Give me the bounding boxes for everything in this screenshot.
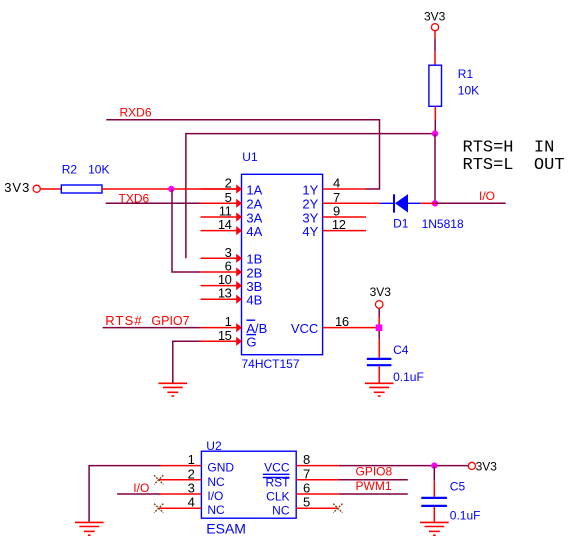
svg-text:3V3: 3V3 [424,10,446,24]
svg-text:CLK: CLK [266,490,289,504]
svg-text:16: 16 [335,314,349,329]
svg-text:2: 2 [188,466,195,481]
svg-text:NC: NC [207,475,225,489]
svg-text:5: 5 [303,495,310,510]
svg-text:R1: R1 [458,67,474,81]
pin 1 stub (GND) [161,465,202,467]
svg-text:1N5818: 1N5818 [422,217,464,231]
svg-text:4B: 4B [246,293,262,308]
svg-text:3V3: 3V3 [370,285,392,299]
pin label A/B with overline on A [246,320,267,336]
ground (C5) [420,522,449,535]
pin 7 stub (RST) [296,479,339,481]
svg-text:7: 7 [303,466,310,481]
svg-text:8: 8 [303,452,310,467]
node R1 bottom junction [432,130,438,136]
pin 2 stub (NC) [159,479,202,481]
svg-text:4: 4 [188,495,195,510]
pin 12 stub (4Y) [323,230,366,232]
svg-text:15: 15 [218,328,232,343]
wire RXD6 to pin 4 [106,120,379,189]
node TXD6 junction [168,186,174,192]
node I/O junction [432,200,438,206]
svg-text:4: 4 [333,176,340,191]
power 3V3 circle (U2) [468,462,475,469]
pin 5 stub (NC) [296,507,338,509]
svg-text:GPIO7: GPIO7 [151,314,189,328]
wire GPIO8 (pin 7) [339,479,408,481]
wire C5 to ground [433,507,435,522]
power 3V3 circle (top right) [431,24,438,31]
wire pin 1 to ground [89,466,160,522]
pin 2 stub (1A) [201,184,243,193]
wire 1B pullup net (horizontal to R1 node) [186,134,435,259]
node VCC junction [376,324,383,331]
svg-text:PWM1: PWM1 [356,479,392,493]
svg-text:C4: C4 [393,343,409,357]
ground (U2 GND) [75,522,104,535]
pin 5 stub (2A) [201,199,243,208]
no-connect X pin 5 [333,504,342,513]
wire 3V3 to VCC node [378,309,380,328]
IC U2 body [201,451,296,518]
wire pin 15 to ground [173,341,201,383]
wire C5 junction down to C5 [433,466,435,497]
pin 4 stub (NC) [159,507,202,509]
svg-text:NC: NC [272,504,290,518]
wire R1 node down to I/O node [434,134,436,204]
svg-text:10K: 10K [88,163,109,177]
svg-text:1A: 1A [246,182,262,197]
svg-text:13: 13 [218,286,232,301]
capacitor C5 [421,498,447,506]
svg-text:3V3: 3V3 [476,459,498,473]
wire from 3V3 to R1 [434,31,436,65]
power 3V3 circle (left) [33,185,40,192]
svg-text:10K: 10K [458,84,479,98]
wire C4 to ground [378,366,380,383]
pin label G with overline [246,335,256,350]
wire 3V3 to R2 [41,188,62,190]
pin label RST with overline [263,475,290,489]
ground (U1 G pin) [159,383,188,396]
svg-text:ESAM: ESAM [206,520,246,536]
no-connect X pin 2 [154,475,163,484]
svg-text:74HCT157: 74HCT157 [242,357,300,371]
capacitor C4 [367,359,392,365]
wire PWM1 (pin 6) [339,493,408,495]
wire VCC node to C4 [378,331,380,358]
svg-text:1: 1 [188,452,195,467]
pin 15 stub (G enable) [201,337,243,346]
pin 4 stub (1Y) [323,188,366,190]
svg-text:U1: U1 [242,150,258,164]
power 3V3 circle (C4) [375,301,383,309]
diode D1 [380,194,435,213]
pin 7 stub (2Y) [323,202,381,204]
svg-text:D1: D1 [393,217,409,231]
pin 1 stub (A/B select) [201,323,243,332]
no-connect X pin 4 [154,504,163,513]
pin 6 stub (CLK) [296,493,339,495]
pin 11 stub (3A) [201,212,243,221]
svg-text:1Y: 1Y [302,182,318,197]
wire I/O net [435,202,506,204]
svg-text:I/O: I/O [133,481,149,495]
svg-text:12: 12 [332,217,346,232]
pin 13 stub (4B) [201,295,243,304]
svg-text:GPIO8: GPIO8 [356,464,393,478]
svg-text:I/O: I/O [207,489,223,503]
wire R2 to pin 2 (1A) [102,188,236,190]
svg-text:RXD6: RXD6 [120,106,152,120]
pin 3 stub (1B) [201,254,243,263]
node C5 junction [431,462,437,468]
svg-text:2: 2 [225,176,232,191]
svg-text:VCC: VCC [264,461,290,475]
resistor R1 [429,65,442,106]
pin 6 stub (2B) [201,267,243,276]
svg-text:0.1uF: 0.1uF [450,508,481,522]
pin 16 stub (VCC) [323,327,379,329]
wire TXD6 to pin 5 (2A) [106,202,201,204]
svg-text:G: G [246,335,256,350]
svg-text:R2: R2 [62,163,78,177]
ground (C4) [365,383,394,396]
svg-text:RTS=H IN: RTS=H IN [463,138,555,157]
svg-text:3V3: 3V3 [4,180,30,195]
pin 9 stub (3Y) [323,216,366,218]
svg-text:C5: C5 [450,480,466,494]
pin label VCC with underline [263,461,290,475]
svg-text:6: 6 [303,481,310,496]
pin 10 stub (3B) [201,281,243,290]
wire from R1 to node [434,106,436,133]
svg-text:VCC: VCC [291,321,318,336]
svg-text:3: 3 [188,481,195,496]
wire TXD6 node down to 2B [172,189,201,272]
pin 8 stub (VCC U2) [296,465,339,467]
svg-text:I/O: I/O [479,189,495,203]
wire pin 8 to 3V3 [339,465,468,467]
svg-text:NC: NC [207,503,225,517]
wire RTS# to pin 1 [103,327,201,329]
pin 3 stub (I/O) [161,493,202,495]
svg-text:RTS=L OUT: RTS=L OUT [463,156,565,175]
svg-text:4Y: 4Y [302,224,318,239]
resistor R2 [61,185,102,193]
svg-text:4A: 4A [246,224,262,239]
svg-text:14: 14 [218,217,232,232]
svg-text:0.1uF: 0.1uF [393,370,424,384]
wire I/O to pin 3 [117,493,160,495]
svg-text:RTS#: RTS# [105,313,142,328]
pin 14 stub (4A) [201,226,243,235]
IC U1 body [242,174,323,354]
svg-text:GND: GND [207,461,234,475]
